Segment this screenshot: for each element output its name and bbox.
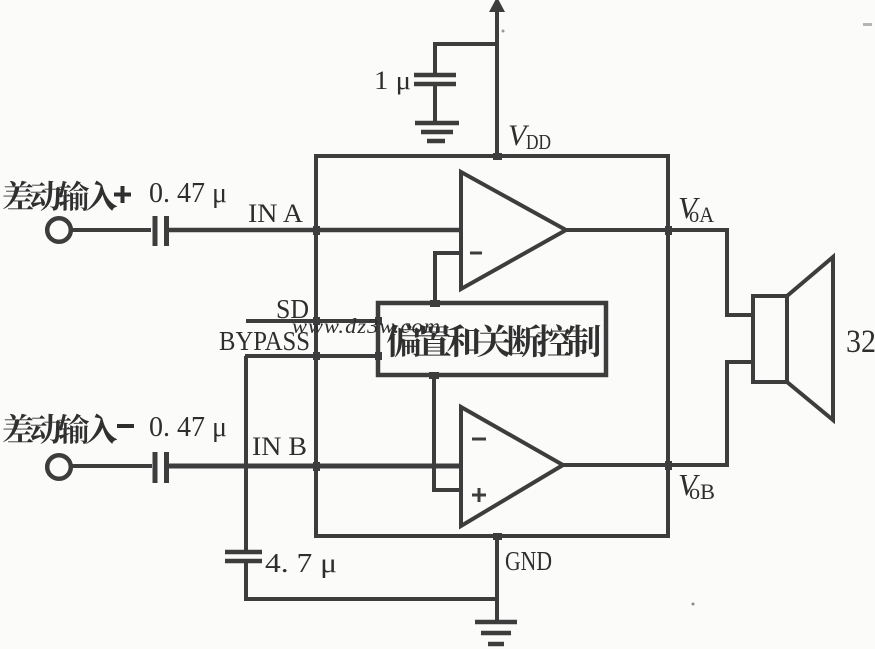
capacitor C2 0.47u left plate [153,452,158,483]
svg-text:0. 47 μ: 0. 47 μ [149,178,227,209]
svg-text:0. 47 μ: 0. 47 μ [149,412,227,443]
op-amp U1A minus sign [470,252,482,255]
svg-text:oA: oA [689,202,714,227]
ground symbol GND bar1 [475,620,517,625]
svg-text:4. 7 μ: 4. 7 μ [265,548,337,578]
wire C3 to ground [433,86,437,123]
svg-text:1 μ: 1 μ [374,66,411,95]
wire IN B left of C2 [71,464,152,468]
svg-text:GND: GND [505,546,552,576]
op-amp U1B [461,407,563,526]
junction nub VoA at box right edge [665,226,672,235]
capacitor C3 1u bottom plate [414,82,456,87]
junction nub SD at box left edge [313,317,320,325]
bias and shutdown control block [378,303,606,375]
wire VoB output [563,463,729,467]
junction nub IN B at box left edge [313,462,320,471]
input terminal J2 [47,455,71,479]
wire VoA output [566,228,729,232]
svg-text:www.dz3w.com: www.dz3w.com [292,314,441,338]
svg-text:IN B: IN B [252,432,307,461]
label minus sign [117,424,134,428]
wire VDD branch to C3 [435,44,497,74]
capacitor C1 0.47u right plate [164,216,169,246]
svg-text:32: 32 [846,324,875,360]
junction nub VoB at box right edge [665,461,672,470]
wire VDD pin up [495,9,499,156]
IC box U1 [316,156,668,536]
label differential input + (Chinese) [3,181,117,211]
svg-text:IN A: IN A [248,199,303,228]
wire U1A inverting input from bias block [435,253,461,303]
capacitor C2 0.47u right plate [164,452,169,483]
input terminal J1 [47,218,71,242]
junction nub VDD at box top edge [493,153,502,160]
scan speck 1 [502,30,505,33]
capacitor C4 4.7u bottom plate [225,559,262,564]
ground symbol GND bar3 [488,642,504,647]
speaker LS1 cone [787,257,833,420]
op-amp U1A [461,172,566,289]
junction nub SD at bias block left edge [375,317,382,325]
wire BYPASS [245,354,378,358]
svg-text:oB: oB [689,479,715,504]
capacitor C1 0.47u left plate [153,216,158,246]
ground symbol C3 bar2 [421,130,453,135]
speaker LS1 driver [753,296,787,382]
scan speck 2 [692,603,695,606]
junction nub IN A at box left edge [313,226,320,235]
wire IN A left of C1 [71,228,151,232]
wire U1B noninverting input from bias block [434,375,461,490]
junction nub bias block bottom [429,372,439,379]
op-amp U1B plus sign [472,494,486,497]
label differential input - (Chinese) [3,414,117,444]
wire C4 to bottom ground rail [246,563,497,599]
ground symbol C3 bar1 [415,121,459,126]
junction nub BYPASS at bias block left edge [375,352,382,360]
junction nub GND at box bottom edge [493,533,502,540]
capacitor C4 4.7u top plate [225,550,262,555]
junction nub BYPASS at box left edge [313,352,320,360]
VDD arrow head [489,0,505,12]
wire VoB up to speaker [727,362,753,465]
scan speck 3 [863,23,872,26]
junction nub bias block top [430,300,440,307]
wire VoA down to speaker [727,230,753,315]
ground symbol C3 bar3 [427,139,445,144]
wire IN A to U1A input [167,228,461,233]
op-amp U1B minus sign [472,438,486,441]
ground symbol GND bar2 [481,631,511,636]
capacitor C3 1u top plate [414,73,456,78]
label bias and shutdown control (Chinese) [387,324,600,357]
wire IN B to U1B input [168,464,461,469]
wire BYPASS branch down to C4 [244,356,248,552]
label plus sign [114,186,131,203]
wire SD [246,319,378,323]
svg-text:DD: DD [526,130,551,154]
wire GND pin down [495,536,499,622]
